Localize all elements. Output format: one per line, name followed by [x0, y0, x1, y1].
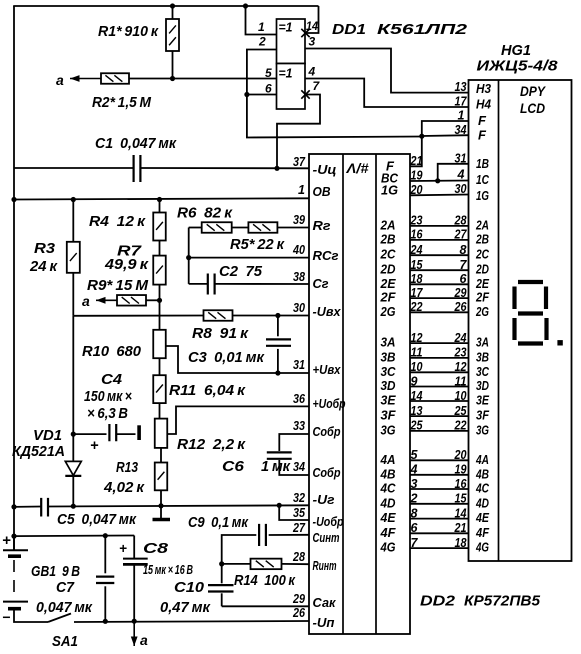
svg-text:GB1 9 В: GB1 9 В [31, 564, 80, 580]
svg-text:40: 40 [292, 243, 305, 257]
svg-text:1: 1 [258, 20, 265, 34]
resistor R7 [159, 241, 161, 256]
node pin35 stub tee [277, 503, 282, 508]
node A junction R1/R2/pin5 [170, 76, 175, 81]
svg-text:3D: 3D [476, 378, 489, 393]
svg-text:=1: =1 [279, 67, 293, 81]
svg-text:20: 20 [410, 183, 423, 197]
node: DD1 pin7 on -Uc rail [274, 166, 279, 171]
resistor R8 [204, 310, 233, 321]
wire: DD2 pin 21 F up to backplane [410, 137, 422, 167]
svg-text:28: 28 [454, 214, 467, 228]
svg-text:13: 13 [411, 404, 423, 418]
svg-text:23: 23 [410, 214, 423, 228]
svg-text:15: 15 [455, 492, 468, 506]
capacitor C5 [41, 498, 48, 517]
svg-text:2B: 2B [475, 231, 489, 246]
svg-text:8: 8 [411, 506, 418, 520]
pin 5 wire from node A [173, 78, 277, 80]
resistor R6 [189, 227, 202, 229]
svg-text:a: a [56, 72, 64, 88]
svg-text:Rг: Rг [313, 218, 331, 233]
svg-text:3F: 3F [381, 408, 397, 423]
svg-text:4F: 4F [380, 525, 397, 540]
svg-text:15: 15 [411, 258, 424, 272]
svg-text:4: 4 [457, 168, 465, 182]
svg-text:С4: С4 [101, 372, 122, 388]
battery GB1 cell 2 [3, 601, 28, 603]
capacitor C6 [267, 452, 292, 458]
svg-text:9: 9 [411, 374, 418, 388]
svg-text:R1* 910 к: R1* 910 к [98, 24, 159, 40]
wire: C6 to pin 34 Sobr [279, 460, 309, 475]
svg-text:27: 27 [292, 521, 306, 535]
pin 3 output wire to HG1 H3 [305, 49, 469, 93]
wire: segment 2F DD2 pin 17 to HG1 pin 29 [410, 297, 469, 299]
svg-text:HG1: HG1 [501, 42, 531, 59]
wire: pin 20 1G to HG1 1G [410, 194, 469, 197]
svg-text:1 мк: 1 мк [261, 459, 291, 475]
svg-text:4G: 4G [475, 540, 489, 555]
svg-text:R5* 22 к: R5* 22 к [230, 237, 285, 253]
svg-text:10: 10 [411, 360, 423, 374]
capacitor C2 [189, 283, 208, 285]
svg-text:-Uвх: -Uвх [313, 304, 342, 319]
wire: segment 2D DD2 pin 15 to HG1 pin 7 [410, 269, 469, 271]
svg-text:Λ/#: Λ/# [345, 161, 369, 176]
wire: segment 2E DD2 pin 18 to HG1 pin 6 [410, 283, 469, 285]
wire: segment 4D DD2 pin 2 to HG1 pin 15 [410, 503, 469, 505]
op-amp DD1 gate1 (XOR =1) [277, 19, 306, 64]
svg-text:H3: H3 [476, 81, 492, 96]
svg-text:17: 17 [411, 286, 424, 300]
op-amp DD1 gate2 (XOR =1) [277, 64, 306, 110]
svg-text:10: 10 [455, 389, 467, 403]
op-amp DD2 ADC box outline [309, 154, 410, 634]
wire: segment 2G DD2 pin 22 to HG1 pin 26 [410, 311, 469, 313]
svg-text:R12 2,2 к: R12 2,2 к [177, 437, 246, 453]
svg-text:F: F [478, 113, 487, 128]
svg-text:1G: 1G [381, 183, 398, 198]
wire: Sint pin 27 with C9 [222, 535, 257, 564]
wire: segment 4B DD2 pin 4 to HG1 pin 19 [410, 474, 469, 476]
svg-text:11: 11 [455, 374, 467, 388]
svg-text:34: 34 [293, 460, 305, 474]
svg-text:КР572ПВ5: КР572ПВ5 [464, 593, 541, 610]
svg-text:−: − [2, 609, 10, 625]
wire: top rail [13, 5, 318, 7]
svg-text:C8: C8 [143, 541, 169, 557]
seven-segment digit 8 with decimal point [518, 280, 543, 284]
wire+arrow to node a (left) [70, 78, 101, 80]
svg-text:R11 6,04 к: R11 6,04 к [169, 383, 246, 399]
node C3 top [275, 313, 280, 318]
node: bottom rail to a [132, 619, 137, 624]
svg-text:3D: 3D [381, 378, 397, 393]
svg-text:4E: 4E [380, 510, 396, 525]
svg-text:R9* 15 М: R9* 15 М [87, 278, 149, 294]
svg-text:21: 21 [454, 521, 467, 535]
svg-text:C3 0,01 мк: C3 0,01 мк [188, 350, 265, 366]
svg-text:=1: =1 [279, 21, 293, 35]
pin 6 wire [247, 94, 277, 96]
svg-text:49,9 к: 49,9 к [104, 257, 149, 273]
svg-text:36: 36 [293, 392, 306, 406]
wire: segment 3F DD2 pin 13 to HG1 pin 25 [410, 415, 469, 417]
switch SA1 [14, 609, 48, 622]
node R14 tee [219, 561, 224, 566]
svg-text:Собр: Собр [313, 465, 341, 480]
svg-text:4C: 4C [475, 481, 489, 496]
svg-text:Rинт: Rинт [313, 558, 337, 573]
svg-text:150 мк ×: 150 мк × [84, 389, 132, 405]
wire: segment 3G DD2 pin 25 to HG1 pin 22 [410, 430, 469, 432]
svg-text:32: 32 [293, 491, 305, 505]
resistor R3 [72, 200, 74, 242]
svg-text:30: 30 [293, 301, 305, 315]
svg-text:4B: 4B [475, 466, 489, 481]
svg-text:4: 4 [410, 463, 418, 477]
svg-text:19: 19 [455, 463, 467, 477]
svg-text:3G: 3G [381, 422, 396, 437]
svg-text:1G: 1G [476, 188, 489, 203]
wire: to pin 29 Sak [222, 605, 309, 607]
svg-text:C7: C7 [56, 580, 75, 596]
svg-text:6: 6 [265, 82, 272, 96]
wire: R2 to node [129, 78, 173, 80]
svg-text:3E: 3E [381, 393, 396, 408]
svg-text:2D: 2D [380, 262, 396, 277]
wire: BP net from pins 2/6 down to rail [247, 95, 422, 138]
resistor R13 [160, 448, 162, 463]
svg-text:4D: 4D [380, 495, 396, 510]
node VD1 bottom [71, 504, 76, 509]
svg-text:14: 14 [455, 506, 467, 520]
svg-text:a: a [82, 293, 90, 309]
svg-text:25: 25 [410, 419, 424, 433]
svg-text:26: 26 [292, 606, 306, 620]
svg-text:16: 16 [411, 228, 424, 242]
wire: OB (+) rail [14, 198, 309, 199]
svg-text:4G: 4G [380, 540, 396, 555]
svg-text:F: F [478, 128, 487, 143]
svg-text:R14 100 к: R14 100 к [234, 573, 296, 589]
svg-text:5: 5 [411, 448, 419, 462]
battery GB1 plus terminal [11, 534, 16, 539]
node: DD1 pin1 rail junction [243, 3, 248, 8]
resistor R4 [159, 200, 161, 213]
wire: segment 3E DD2 pin 14 to HG1 pin 10 [410, 400, 469, 402]
svg-text:2A: 2A [475, 217, 489, 232]
capacitor C3 [277, 316, 279, 337]
svg-text:4,02 к: 4,02 к [103, 480, 145, 496]
svg-text:31: 31 [293, 358, 305, 372]
wire: segment 2C DD2 pin 24 to HG1 pin 8 [410, 254, 469, 256]
pin 7 power pin with x-mark wire to -Uc rail [301, 90, 309, 98]
svg-text:14: 14 [306, 19, 318, 33]
capacitor C10 [221, 564, 223, 583]
wire: backplane net junction [419, 134, 424, 139]
svg-text:2G: 2G [380, 304, 396, 319]
svg-text:34: 34 [455, 123, 467, 137]
svg-text:3A: 3A [476, 335, 489, 350]
svg-text:1: 1 [458, 109, 465, 123]
node C3 bottom [275, 370, 280, 375]
svg-text:R6 82 к: R6 82 к [177, 206, 233, 222]
battery GB1 cell 1 [3, 549, 28, 551]
svg-text:4E: 4E [475, 510, 489, 525]
display HG1 box outline [469, 80, 572, 561]
battery dashed link [13, 560, 15, 598]
svg-text:8: 8 [460, 243, 467, 257]
resistor R2 [101, 73, 129, 84]
svg-text:5: 5 [265, 66, 272, 80]
svg-text:LCD: LCD [520, 101, 545, 116]
svg-text:3: 3 [309, 35, 316, 49]
svg-text:35: 35 [293, 506, 306, 520]
wire: Rg net vertical [188, 228, 190, 284]
svg-text:-Uобр: -Uобр [313, 514, 344, 529]
svg-text:1B: 1B [476, 156, 489, 171]
svg-text:a: a [140, 632, 148, 648]
capacitor C1 [134, 155, 141, 182]
wire: segment 3B DD2 pin 11 to HG1 pin 23 [410, 357, 469, 359]
svg-text:3F: 3F [476, 408, 490, 423]
svg-text:4C: 4C [380, 481, 396, 496]
resistor R5 [232, 227, 249, 229]
svg-text:3A: 3A [381, 335, 396, 350]
svg-text:17: 17 [455, 95, 468, 109]
wire: segment 2A DD2 pin 23 to HG1 pin 28 [410, 225, 469, 227]
wire: pin 33 Sobr [279, 434, 309, 451]
svg-text:RCг: RCг [313, 248, 339, 263]
svg-text:C10: C10 [174, 580, 204, 596]
svg-text:R3: R3 [34, 241, 55, 257]
wire: segment 4E DD2 pin 8 to HG1 pin 14 [410, 518, 469, 520]
svg-text:13: 13 [455, 80, 467, 94]
svg-text:ОВ: ОВ [313, 184, 331, 199]
svg-text:+Uобр: +Uобр [313, 396, 346, 411]
resistor R12 with tap [155, 419, 168, 448]
svg-text:11: 11 [411, 346, 423, 360]
wire: segment 4G DD2 pin 7 to HG1 pin 18 [410, 547, 469, 549]
wire: up to HG1 pin 1 (F) [422, 121, 469, 137]
svg-text:Сг: Сг [313, 276, 329, 291]
svg-text:6: 6 [460, 272, 468, 286]
svg-text:2F: 2F [380, 290, 397, 305]
svg-text:3B: 3B [381, 349, 396, 364]
svg-text:18: 18 [455, 536, 467, 550]
wire: segment 4F DD2 pin 6 to HG1 pin 21 [410, 532, 469, 534]
svg-text:12: 12 [411, 331, 423, 345]
capacitor C8 electrolytic [133, 536, 135, 559]
ground (corpus) bar [158, 503, 163, 508]
svg-text:+: + [90, 438, 99, 454]
svg-text:Сак: Сак [313, 595, 337, 610]
svg-text:16: 16 [455, 477, 468, 491]
svg-text:4: 4 [308, 65, 316, 79]
svg-text:+: + [2, 532, 11, 549]
svg-text:2: 2 [410, 492, 418, 506]
svg-text:VD1: VD1 [33, 428, 62, 444]
wire: RCg lead pin 40 [189, 257, 309, 259]
svg-text:21: 21 [410, 154, 423, 168]
svg-text:Собр: Собр [313, 424, 341, 439]
svg-text:6: 6 [411, 521, 419, 535]
capacitor C9 [259, 524, 266, 546]
svg-text:31: 31 [455, 151, 467, 165]
resistor R10 with tap [153, 330, 166, 358]
svg-text:С9 0,1 мк: С9 0,1 мк [188, 515, 249, 531]
svg-text:29: 29 [292, 592, 305, 606]
wire: +9V rail to C7/C8 [14, 535, 134, 538]
wire: -Ug rail / pin 32 [11, 504, 16, 509]
svg-text:2A: 2A [380, 217, 396, 232]
svg-text:2F: 2F [475, 290, 490, 305]
svg-text:19: 19 [411, 169, 423, 183]
svg-text:SA1: SA1 [52, 634, 78, 649]
node R4 top [157, 197, 162, 202]
svg-text:3E: 3E [476, 393, 489, 408]
svg-text:-Uц: -Uц [313, 162, 337, 177]
svg-text:-Uп: -Uп [313, 615, 335, 630]
svg-text:4A: 4A [380, 452, 396, 467]
svg-text:4A: 4A [475, 452, 489, 467]
svg-text:25: 25 [454, 404, 468, 418]
wire: R12 tap to +Uobr lead pin 36 [167, 406, 309, 434]
svg-text:R4 12 к: R4 12 к [89, 214, 146, 230]
svg-text:24: 24 [454, 331, 467, 345]
svg-text:2D: 2D [475, 262, 489, 277]
svg-text:2: 2 [258, 35, 266, 49]
svg-text:39: 39 [293, 213, 305, 227]
wire: to HG1 pin 34 (F) [422, 134, 469, 137]
wire: segment 3A DD2 pin 12 to HG1 pin 24 [410, 342, 469, 344]
svg-text:0,047 мк: 0,047 мк [36, 600, 93, 616]
pin 14 power pin with x-mark [301, 29, 309, 37]
svg-text:С6: С6 [222, 459, 245, 475]
svg-text:38: 38 [293, 270, 305, 284]
svg-text:4B: 4B [380, 466, 396, 481]
svg-text:2G: 2G [475, 304, 489, 319]
svg-text:3C: 3C [381, 364, 397, 379]
svg-text:2C: 2C [380, 247, 396, 262]
svg-text:15 мк × 16 В: 15 мк × 16 В [143, 562, 193, 577]
wire: pin 35 -Uobr stub [279, 505, 309, 520]
svg-text:C1 0,047 мк: C1 0,047 мк [95, 136, 177, 152]
svg-text:R13: R13 [116, 460, 138, 476]
pin 2 wire [247, 50, 277, 95]
svg-text:14: 14 [411, 389, 423, 403]
capacitor C7 [103, 533, 108, 538]
svg-text:24 к: 24 к [29, 259, 58, 275]
svg-text:2B: 2B [380, 231, 396, 246]
node: pin2/pin6 junction [244, 92, 249, 97]
svg-text:C5 0,047 мк: C5 0,047 мк [57, 512, 137, 528]
svg-text:0,47 мк: 0,47 мк [160, 600, 211, 616]
wire: left +9V border bus [13, 6, 15, 550]
node R3 top [71, 197, 76, 202]
wire: segment 2B DD2 pin 16 to HG1 pin 27 [410, 239, 469, 241]
svg-text:+: + [119, 541, 127, 556]
wire: -Uc rail (C1 rail) [14, 167, 134, 169]
svg-text:DPY: DPY [520, 84, 547, 99]
svg-text:4F: 4F [475, 525, 490, 540]
resistor R1 [172, 6, 174, 19]
svg-text:DD2: DD2 [420, 593, 456, 610]
svg-text:22: 22 [454, 419, 467, 433]
wire: pin 19 BC to HG1 1C and 1B [410, 180, 469, 183]
svg-text:7: 7 [411, 536, 419, 550]
svg-text:28: 28 [292, 550, 305, 564]
wire: segment 4C DD2 pin 3 to HG1 pin 16 [410, 488, 469, 490]
svg-text:27: 27 [454, 228, 468, 242]
svg-text:R8 91 к: R8 91 к [192, 326, 249, 342]
diode VD1 [72, 316, 74, 462]
svg-text:Синт: Синт [313, 530, 340, 545]
resistor R14 [222, 563, 251, 565]
svg-text:2C: 2C [475, 247, 489, 262]
svg-text:R10 680: R10 680 [82, 344, 141, 360]
svg-text:12: 12 [455, 360, 467, 374]
resistor R11 [159, 358, 161, 375]
svg-text:23: 23 [454, 346, 467, 360]
svg-text:7: 7 [460, 258, 468, 272]
svg-text:C2 75: C2 75 [219, 264, 263, 280]
svg-text:-Uг: -Uг [313, 492, 335, 507]
svg-text:24: 24 [410, 243, 423, 257]
svg-text:3B: 3B [476, 349, 489, 364]
wire: R10 tap to +Uvx lead pin 31 [166, 346, 309, 373]
svg-text:2E: 2E [475, 276, 489, 291]
svg-text:3: 3 [411, 477, 418, 491]
svg-text:R2* 1,5 М: R2* 1,5 М [92, 95, 152, 111]
svg-text:26: 26 [454, 300, 468, 314]
pin 1 wire from top rail [246, 6, 277, 35]
pin 4 output wire to HG1 H4 [305, 79, 469, 108]
svg-text:DD1: DD1 [332, 21, 366, 38]
wire: segment 3D DD2 pin 9 to HG1 pin 11 [410, 386, 469, 388]
svg-text:20: 20 [454, 448, 467, 462]
svg-text:1C: 1C [476, 172, 489, 187]
svg-text:18: 18 [411, 272, 423, 286]
svg-text:3G: 3G [476, 422, 489, 437]
wire: -Uvx lead pin 30 [73, 315, 203, 317]
node C4 tee [71, 432, 76, 437]
svg-text:ИЖЦ5-4/8: ИЖЦ5-4/8 [477, 59, 559, 75]
svg-text:2E: 2E [380, 276, 396, 291]
svg-text:+Uвх: +Uвх [313, 362, 342, 377]
wire: segment 4A DD2 pin 5 to HG1 pin 20 [410, 459, 469, 461]
svg-text:1: 1 [298, 183, 305, 197]
svg-text:29: 29 [454, 286, 467, 300]
svg-text:37: 37 [293, 155, 306, 169]
svg-text:× 6,3 В: × 6,3 В [87, 406, 128, 422]
svg-text:К561ЛП2: К561ЛП2 [377, 21, 468, 38]
svg-text:4D: 4D [475, 495, 489, 510]
wire: segment 3C DD2 pin 10 to HG1 pin 12 [410, 371, 469, 373]
node: R1 top junction [170, 3, 175, 8]
svg-text:22: 22 [410, 300, 423, 314]
svg-text:30: 30 [455, 182, 467, 196]
svg-text:КД521А: КД521А [12, 444, 65, 460]
svg-text:H4: H4 [476, 97, 492, 112]
svg-text:33: 33 [293, 419, 305, 433]
svg-text:3C: 3C [476, 364, 489, 379]
capacitor C4 electrolytic [73, 433, 106, 435]
